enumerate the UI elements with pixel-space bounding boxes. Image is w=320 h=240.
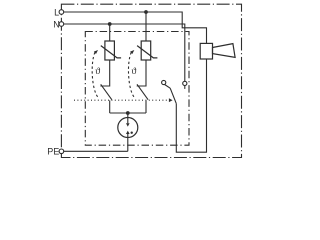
signal contact NO terminal stub <box>184 86 186 89</box>
signal contact blade <box>170 88 176 103</box>
terminal L <box>59 10 64 15</box>
thermal disconnector switch F1 blade <box>101 84 112 99</box>
gas discharge tube F3 <box>118 113 138 138</box>
signal contact fixed lead <box>165 85 171 89</box>
node N junction <box>108 22 112 26</box>
varistor RV2 <box>137 41 157 60</box>
varistor RV1 <box>101 41 121 60</box>
thermal trip arc RV2 <box>128 52 133 97</box>
svg-text:ϑ: ϑ <box>95 66 100 77</box>
thermal disconnector switch F2 blade <box>137 84 148 99</box>
wire branch 1 upper lead <box>109 24 111 41</box>
svg-text:L: L <box>54 7 59 17</box>
wire N line <box>64 24 185 81</box>
wire PE line <box>64 150 128 152</box>
signal contact NO terminal <box>183 81 187 85</box>
wire common bus <box>110 112 146 114</box>
node common junction <box>126 111 130 115</box>
wire branch 1 lower lead <box>109 100 111 113</box>
wire contact to horn <box>176 59 206 152</box>
svg-text:PE: PE <box>47 146 59 156</box>
protection module dashed box <box>85 32 189 146</box>
terminal PE <box>59 149 64 154</box>
terminal N <box>59 22 64 27</box>
horn H1 <box>200 43 235 59</box>
node L junction <box>144 10 148 14</box>
mechanical linkage dotted line <box>74 99 169 101</box>
wire branch 2 upper lead <box>145 12 147 41</box>
linkage arrowhead <box>169 98 173 102</box>
wire L line <box>64 12 207 43</box>
signal contact NC terminal <box>162 80 166 84</box>
wire GDT to PE <box>127 138 129 152</box>
thermal trip arc RV1 <box>92 52 97 97</box>
wire varistor RV1 lower lead <box>100 60 109 86</box>
svg-text:ϑ: ϑ <box>132 66 137 77</box>
wire varistor RV2 lower lead <box>137 60 146 86</box>
wire branch 2 lower lead <box>145 100 147 113</box>
svg-text:N: N <box>53 20 60 30</box>
enclosure dash-dot border <box>61 4 241 157</box>
